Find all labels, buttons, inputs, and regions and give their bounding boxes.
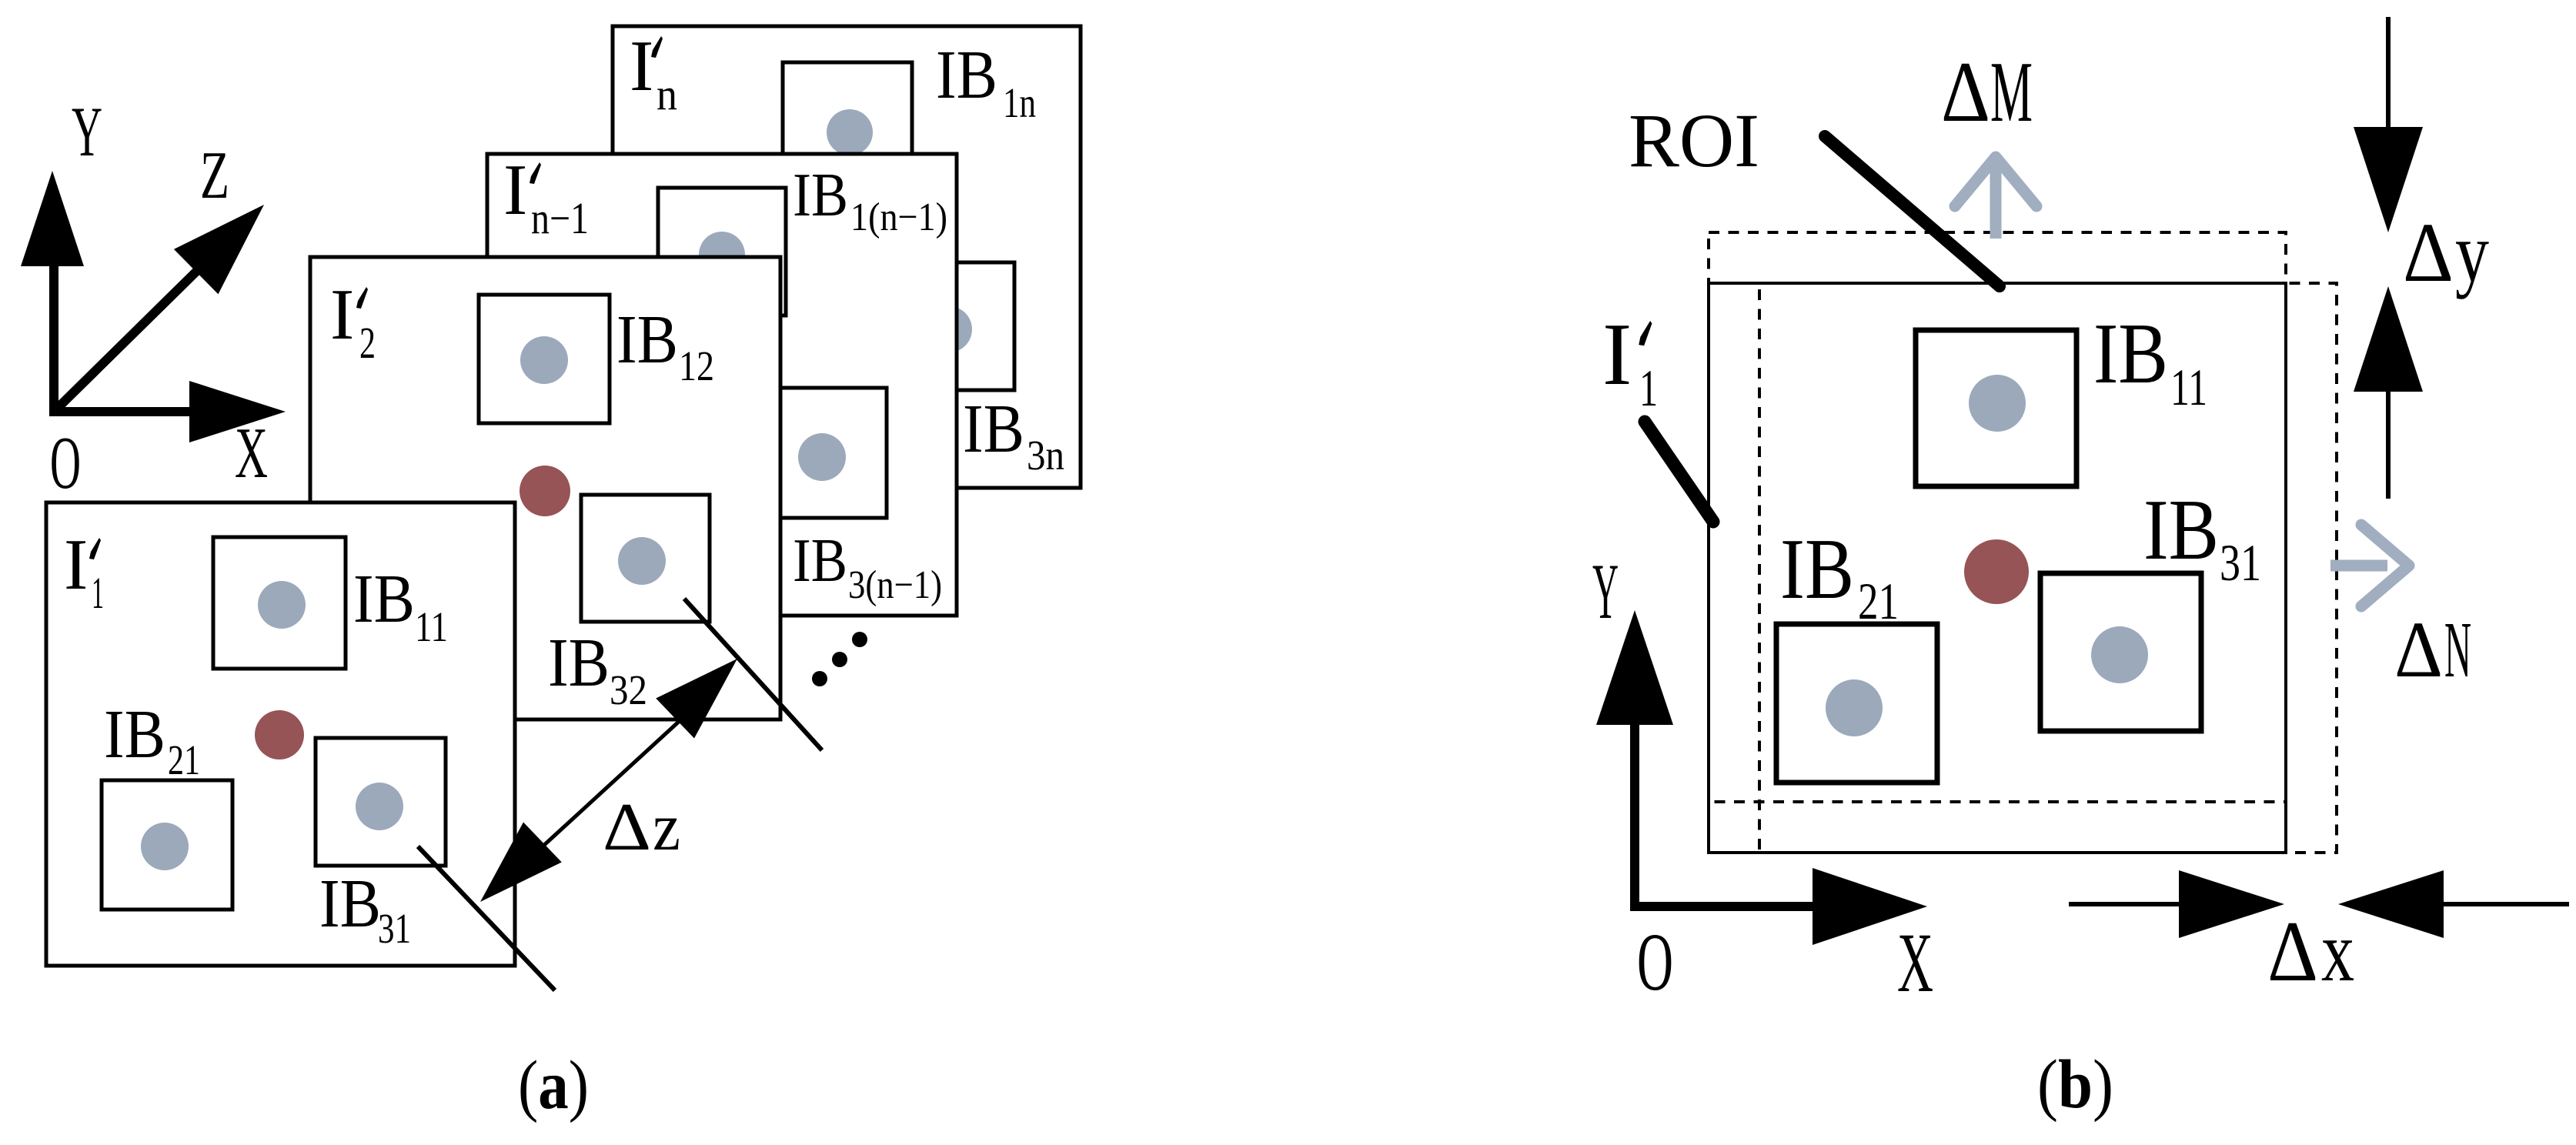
svg-text:IB: IB bbox=[1780, 522, 1854, 617]
seed point dot in IB_11 (b) bbox=[1969, 375, 2026, 432]
Delta-z arrowhead upper-right bbox=[656, 659, 737, 739]
svg-text:IB: IB bbox=[793, 162, 848, 229]
coordinate axes origin O (a) bbox=[49, 266, 58, 412]
ROI dashed square shifted right (b) bbox=[1759, 283, 2337, 853]
seed point dot in IB_3n bbox=[926, 306, 972, 352]
Y axis arrowhead (b) bbox=[1596, 610, 1673, 725]
svg-text:11: 11 bbox=[415, 603, 448, 650]
seed point dot in IB_21 (b) bbox=[1826, 679, 1883, 736]
svg-text:n: n bbox=[657, 69, 677, 119]
svg-text:O: O bbox=[1637, 917, 1673, 1008]
svg-text:X: X bbox=[235, 413, 268, 493]
image block IB_31 (a) bbox=[316, 738, 446, 866]
image plane I'_2 bbox=[310, 257, 780, 719]
svg-text:1n: 1n bbox=[1003, 79, 1036, 126]
svg-text:3n: 3n bbox=[1027, 432, 1064, 479]
seed point dot in IB_31 (b) bbox=[2091, 626, 2148, 683]
svg-text:z: z bbox=[653, 790, 680, 865]
image block IB_31 (b) bbox=[2040, 573, 2201, 731]
svg-text:32: 32 bbox=[610, 666, 647, 713]
svg-text:O: O bbox=[50, 422, 81, 504]
Delta-y indicator: upper line and down arrowhead bbox=[2386, 17, 2391, 129]
svg-text:IB: IB bbox=[2143, 482, 2219, 578]
X axis arrowhead (b) bbox=[1813, 868, 1927, 945]
svg-text:1(n−1): 1(n−1) bbox=[850, 195, 947, 239]
tick line on plane I'_2 bbox=[684, 599, 822, 750]
X axis arrowhead (a) bbox=[189, 381, 286, 442]
X axis shaft (a) bbox=[49, 407, 189, 416]
I'_1 pointer thick line (b) bbox=[1645, 422, 1713, 522]
seed point dot in IB_11 (a) bbox=[258, 581, 306, 629]
svg-text:IB: IB bbox=[963, 391, 1024, 467]
svg-text:ROI: ROI bbox=[1629, 98, 1759, 183]
svg-text:IB: IB bbox=[616, 302, 678, 378]
ellipsis dots bbox=[852, 632, 867, 647]
svg-text:Δ: Δ bbox=[2403, 205, 2454, 299]
seed point dot in IB_32 bbox=[618, 537, 666, 585]
red feature dot (b) bbox=[1964, 539, 2029, 604]
image block IB_12 bbox=[479, 295, 610, 423]
svg-text:(a): (a) bbox=[518, 1047, 589, 1123]
image block IB_3(n-1) bbox=[758, 388, 887, 518]
svg-text:11: 11 bbox=[2170, 358, 2207, 416]
svg-text:31: 31 bbox=[2220, 533, 2261, 592]
svg-text:Y: Y bbox=[72, 92, 102, 171]
Delta-z double-headed arrow shaft bbox=[543, 719, 681, 846]
svg-text:IB: IB bbox=[319, 866, 381, 942]
svg-text:1: 1 bbox=[92, 568, 104, 618]
svg-text:n−1: n−1 bbox=[531, 193, 589, 243]
seed point dot in IB_31 (a) bbox=[356, 783, 403, 830]
svg-text:Δ: Δ bbox=[603, 790, 651, 865]
image plane I'_1 (b) solid square bbox=[1709, 283, 2286, 853]
ROI dashed square shifted up (b) bbox=[1709, 232, 2286, 802]
seed point dot in IB_12 bbox=[520, 336, 568, 384]
svg-text:21: 21 bbox=[168, 736, 200, 783]
gray arrow Delta-N right (b) bbox=[2330, 560, 2387, 572]
Y axis arrowhead (a) bbox=[21, 171, 84, 266]
svg-text:Y: Y bbox=[1592, 548, 1619, 636]
svg-text:Δ: Δ bbox=[2267, 904, 2318, 1000]
svg-text:1: 1 bbox=[1639, 359, 1658, 417]
red feature dot on I'_2 bbox=[520, 466, 570, 516]
Delta-y indicator: up arrowhead and lower line bbox=[2354, 286, 2423, 392]
svg-text:Δ: Δ bbox=[2394, 606, 2443, 694]
svg-text:IB: IB bbox=[104, 696, 165, 773]
ROI pointer thick line bbox=[1825, 136, 2000, 286]
Delta-x indicator: left line and right-pointing arrowhead bbox=[2069, 902, 2181, 906]
svg-text:2: 2 bbox=[359, 318, 376, 368]
svg-text:I: I bbox=[630, 26, 653, 106]
svg-text:I: I bbox=[330, 275, 354, 355]
XY axes (b): Y shaft bbox=[1630, 725, 1639, 906]
gray arrow Delta-M up (b) bbox=[1990, 159, 2002, 239]
image plane I'_n bbox=[613, 26, 1081, 488]
svg-text:31: 31 bbox=[378, 905, 411, 952]
Z axis shaft (a) bbox=[54, 266, 202, 412]
svg-text:x: x bbox=[2321, 904, 2354, 1000]
svg-text:M: M bbox=[1990, 45, 2033, 140]
svg-text:I: I bbox=[503, 150, 527, 230]
Delta-z arrowhead lower-left bbox=[480, 823, 562, 903]
svg-text:N: N bbox=[2444, 606, 2471, 694]
Delta-x indicator: left-pointing arrowhead and right line bbox=[2338, 870, 2444, 938]
svg-text:21: 21 bbox=[1858, 572, 1899, 630]
image block IB_21 (a) bbox=[102, 780, 232, 910]
svg-text:(b): (b) bbox=[2037, 1047, 2113, 1123]
svg-text:I: I bbox=[64, 525, 88, 605]
svg-text:3(n−1): 3(n−1) bbox=[848, 563, 942, 607]
svg-text:IB: IB bbox=[2093, 306, 2168, 402]
image block IB_21 (b) bbox=[1776, 624, 1937, 783]
image block IB_11 (b) bbox=[1916, 330, 2077, 486]
svg-text:IB: IB bbox=[936, 37, 997, 113]
svg-text:IB: IB bbox=[793, 527, 847, 595]
image plane I'_1 bbox=[46, 502, 515, 966]
svg-text:12: 12 bbox=[679, 342, 714, 389]
image block IB_11 (a) bbox=[213, 537, 346, 669]
seed point dot in IB_1n bbox=[827, 109, 873, 155]
image block IB_3n bbox=[885, 262, 1014, 390]
red feature dot on I'_1 bbox=[255, 710, 304, 759]
X axis shaft (b) bbox=[1630, 902, 1813, 911]
seed point dot in IB_1(n-1) bbox=[699, 232, 745, 278]
image block IB_1n bbox=[783, 62, 912, 190]
image block IB_32 bbox=[581, 495, 710, 622]
tick line on plane I'_1 bbox=[418, 846, 555, 990]
image plane I'_n-1 bbox=[487, 154, 957, 616]
seed point dot in IB_3(n-1) bbox=[798, 433, 846, 481]
svg-text:IB: IB bbox=[353, 561, 415, 637]
seed point dot in IB_21 (a) bbox=[141, 823, 189, 870]
svg-text:X: X bbox=[1897, 916, 1933, 1010]
image block IB_1(n-1) bbox=[658, 188, 786, 315]
svg-text:IB: IB bbox=[548, 625, 610, 701]
svg-text:y: y bbox=[2455, 205, 2489, 299]
svg-text:Z: Z bbox=[200, 139, 229, 213]
svg-text:I: I bbox=[1602, 305, 1632, 403]
svg-text:Δ: Δ bbox=[1941, 45, 1990, 140]
Z axis arrowhead (a) bbox=[174, 205, 264, 294]
